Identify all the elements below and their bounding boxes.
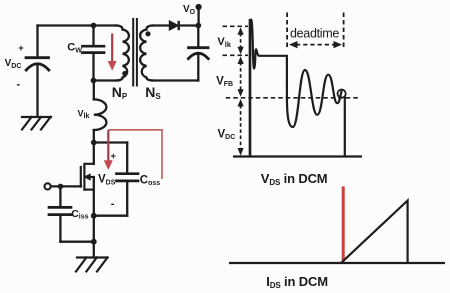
- inductor secondary winding NS: [140, 26, 153, 81]
- wire Cw branch upper: [92, 26, 94, 47]
- capacitor VDC source plates: [26, 58, 49, 70]
- transistor Q1 mosfet: [81, 164, 94, 190]
- capacitor COSS plates: [117, 174, 139, 181]
- wire output cap upper: [197, 26, 199, 48]
- wire to ground: [93, 242, 95, 258]
- dashed level plateau left: [223, 54, 249, 56]
- wire Vo terminal: [197, 7, 199, 26]
- wire secondary top to diode: [152, 24, 169, 26]
- wire drain vertical: [93, 143, 95, 164]
- red Vds measurement path: [108, 130, 162, 179]
- wire source vertical: [93, 177, 95, 216]
- inductor primary winding NP: [116, 26, 129, 81]
- node polarity dot secondary: [145, 31, 150, 36]
- transformer core: [133, 19, 137, 86]
- dimension arrow VFB: [238, 56, 244, 96]
- wire gate lead: [51, 185, 81, 187]
- node junction bottom return: [91, 239, 97, 245]
- svg-text:deadtime: deadtime: [290, 26, 339, 40]
- wire Ciss branch upper: [59, 186, 61, 207]
- deadtime arrow: [289, 41, 342, 48]
- red turn-on line: [342, 186, 345, 261]
- node Vo terminal: [196, 4, 202, 10]
- node junction top Cw: [91, 23, 97, 29]
- dimension arrow VDC: [238, 99, 244, 156]
- wire secondary bottom: [152, 79, 198, 81]
- node polarity dot primary: [122, 71, 127, 76]
- wire Vlk upper: [93, 81, 95, 100]
- gate terminal: [45, 183, 51, 189]
- wire Coss branch lower: [126, 181, 128, 216]
- node junction drain: [91, 140, 97, 146]
- wire Vdc branch lower: [36, 65, 38, 117]
- node junction source: [91, 213, 97, 219]
- wire source to gnd node: [93, 216, 95, 242]
- waveform Ids ramp: [341, 201, 408, 264]
- waveform end loop: [338, 90, 346, 98]
- wire Vlk to drain node: [93, 130, 95, 143]
- deadtime dashed boundaries: [287, 13, 344, 49]
- wire Ciss branch lower: [59, 215, 61, 242]
- inductor Vlk leakage: [94, 99, 107, 130]
- capacitor output plates: [188, 48, 208, 59]
- wire Coss branch upper: [126, 143, 128, 174]
- wire Cw branch lower: [92, 53, 94, 81]
- wave axis vertical: [249, 19, 251, 157]
- svg-text:-: -: [17, 79, 21, 91]
- red current arrow primary: [108, 34, 117, 71]
- svg-text:-: -: [111, 198, 115, 210]
- wire top rail from Vdc to primary: [38, 24, 118, 26]
- node junction bottom Cw: [91, 78, 97, 84]
- wave Ids baseline: [229, 262, 445, 264]
- node junction diode-Vo: [195, 23, 201, 29]
- ground (Vdc): [22, 117, 51, 130]
- dashed level Vpeak: [223, 25, 249, 27]
- svg-text:+: +: [18, 43, 24, 54]
- transistor Q1 body arrow: [85, 174, 91, 180]
- wire Vdc branch upper: [36, 26, 38, 57]
- wire primary bottom: [94, 79, 119, 81]
- wire output cap lower: [197, 54, 199, 81]
- dashed level VDC: [226, 97, 360, 99]
- wire source node to Coss bottom: [94, 215, 127, 217]
- wire drain node to Coss top: [94, 141, 127, 143]
- red Vds arrow: [104, 130, 113, 170]
- svg-text:+: +: [111, 151, 117, 162]
- ground (mosfet source): [76, 258, 108, 272]
- wire diode to Vo node: [179, 24, 199, 26]
- capacitor CISS plates: [49, 207, 71, 214]
- node junction gate: [58, 184, 64, 190]
- waveform final drop: [344, 96, 346, 157]
- waveform Vds trace: [250, 20, 342, 157]
- wire bottom return: [60, 241, 93, 243]
- diode D1: [169, 21, 178, 30]
- dimension arrow Vlk: [238, 27, 244, 54]
- wave baseline: [233, 155, 362, 157]
- capacitor CW plates: [83, 46, 105, 52]
